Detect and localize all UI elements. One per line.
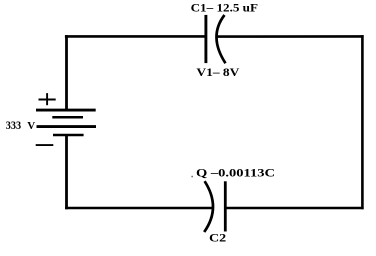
svg-text:C1– 12.5 uF: C1– 12.5 uF — [191, 2, 258, 15]
svg-text:V1– 8V: V1– 8V — [196, 66, 240, 79]
svg-text:C2: C2 — [209, 233, 226, 245]
svg-text:333: 333 — [6, 120, 22, 132]
svg-text:V: V — [27, 120, 35, 132]
svg-text:Q –0.00113C: Q –0.00113C — [196, 165, 275, 179]
